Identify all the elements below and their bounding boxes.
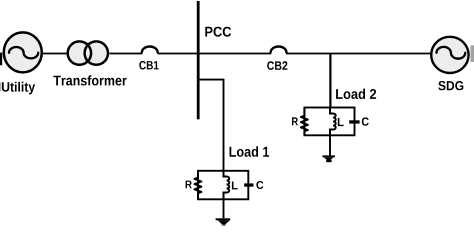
inductor L load 2 — [330, 108, 336, 135]
wire load 2 to ground — [329, 135, 331, 155]
label PCC — [205, 27, 231, 37]
label L load 2 — [338, 118, 344, 126]
label SDG — [438, 81, 463, 90]
label Transformer — [53, 75, 126, 85]
inductor L load 1 — [224, 171, 230, 199]
utility source G1 — [4, 32, 42, 72]
breaker CB1 — [142, 46, 158, 52]
wire main line to load 2 branch — [329, 54, 331, 108]
generator SDG — [431, 37, 468, 73]
wire transformer to CB1 — [110, 53, 143, 55]
label C load 1 — [256, 181, 263, 189]
resistor R load 1 — [195, 172, 202, 199]
label C load 2 — [362, 117, 369, 125]
resistor R load 2 — [301, 108, 308, 134]
label CB2 — [267, 61, 287, 70]
label Load 1 — [230, 146, 270, 157]
wire CB2 to SDG — [286, 53, 431, 55]
cropped glyph sliver at left edge — [0, 83, 1, 92]
wire utility to transformer — [43, 53, 69, 55]
load 1 box rails — [198, 171, 248, 200]
capacitor C load 1 — [244, 183, 253, 186]
load 2 box rails — [304, 108, 354, 136]
wire bus to load 1 branch — [197, 80, 224, 171]
ground load 2 — [322, 155, 335, 162]
wire CB1 to CB2 — [157, 53, 271, 55]
label L load 1 — [232, 182, 238, 190]
cropped stub at right edge — [471, 45, 474, 62]
label Utility — [2, 82, 35, 95]
transformer T1 — [68, 41, 108, 64]
wire load 1 to ground — [223, 199, 225, 218]
breaker CB2 — [271, 46, 287, 52]
label Load 2 — [336, 89, 376, 99]
capacitor C load 2 — [349, 120, 359, 123]
wire stub at left edge — [0, 53, 2, 66]
label CB1 — [139, 61, 158, 70]
label R load 2 — [292, 117, 298, 125]
ground load 1 — [216, 218, 231, 226]
bus PCC — [197, 1, 200, 119]
label R load 1 — [186, 181, 192, 189]
